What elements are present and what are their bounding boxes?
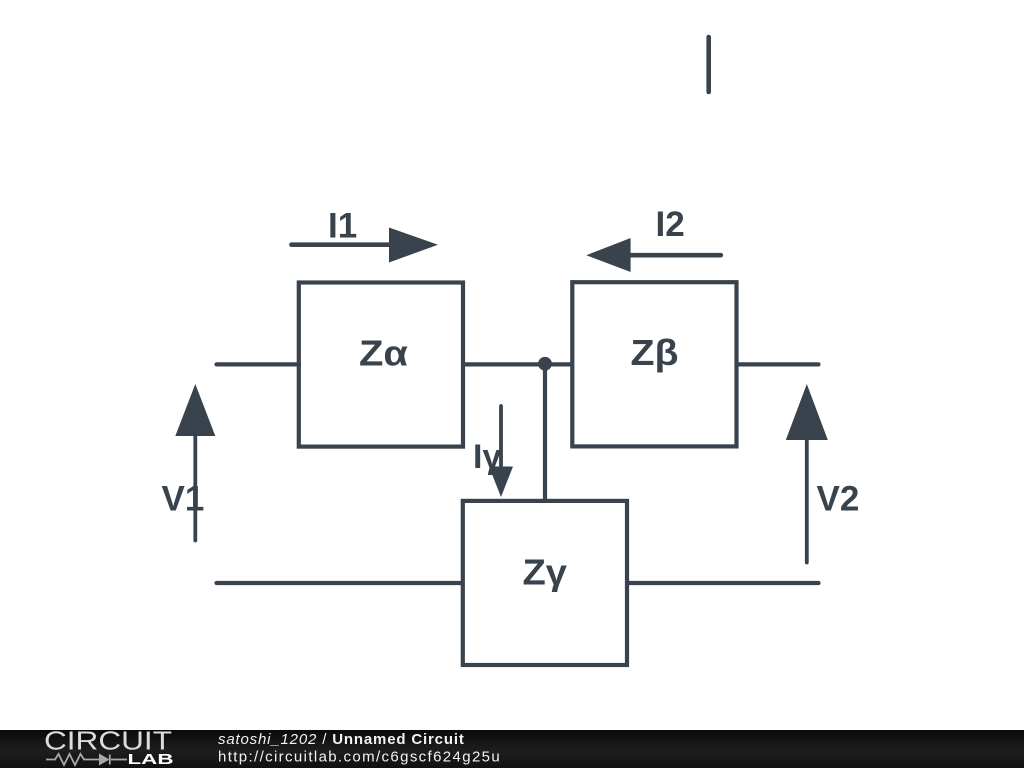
svg-text:I1: I1: [328, 206, 357, 245]
svg-text:LAB: LAB: [128, 752, 174, 768]
svg-text:I2: I2: [656, 205, 685, 244]
svg-text:http://circuitlab.com/c6gscf62: http://circuitlab.com/c6gscf624g25u: [218, 748, 501, 765]
svg-text:V2: V2: [817, 479, 860, 518]
svg-text:V1: V1: [162, 479, 205, 518]
svg-text:Zα: Zα: [359, 333, 409, 374]
svg-text:Iγ: Iγ: [473, 438, 501, 476]
svg-text:Zγ: Zγ: [523, 552, 568, 593]
svg-text:satoshi_1202 / Unnamed Circuit: satoshi_1202 / Unnamed Circuit: [218, 731, 465, 748]
svg-text:Zβ: Zβ: [631, 332, 679, 373]
